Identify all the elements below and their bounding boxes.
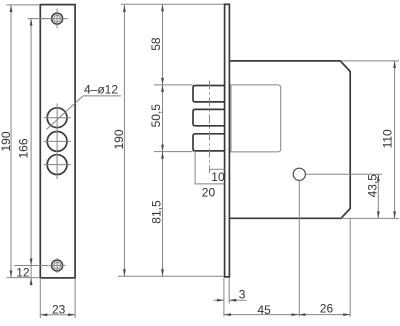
dimension 50,5 [149,85,164,152]
dimension 23 [40,278,75,318]
case right edge extension down [349,219,351,317]
dimension 166 [15,19,49,266]
hole circle 3 of 4-o12 [47,155,67,175]
lock case outline [229,61,350,218]
screw hole top centerlines [41,9,68,29]
svg-text:58: 58 [149,37,163,51]
latch bolt 3 [193,134,225,151]
faceplate front view outline [40,5,75,278]
case bottom extension [341,217,399,219]
dimension 110 [381,61,397,219]
dimension 20 [195,152,225,199]
dimension 43,5 [365,174,379,219]
dimension 3 [214,287,247,301]
faceplate edge view (middle bar) [225,4,230,277]
svg-text:110: 110 [381,129,395,148]
dimension 45 [224,303,299,317]
svg-text:43,5: 43,5 [365,174,379,198]
svg-text:190: 190 [112,129,126,149]
latch centerline [209,81,211,174]
label 4-o12 with leader [47,83,122,130]
svg-text:20: 20 [202,185,216,199]
dimension 12 [16,266,32,286]
svg-text:81,5: 81,5 [150,200,164,224]
hole circle 2 of 4-o12 [47,132,67,152]
svg-text:26: 26 [320,302,334,316]
dimension 190 (middle view) [112,4,224,276]
latch bolt 2 [193,109,225,125]
hole circle 1 of 4-o12 [47,108,67,128]
inner rectangle (cylinder cutout) [231,85,281,152]
dimension 58 [149,4,164,85]
dimension 190 (left view) [0,5,40,278]
screw hole top [52,13,63,24]
svg-text:166: 166 [17,138,31,158]
dimension 26 [299,302,351,317]
plate bottom extension left [223,278,225,317]
screw hole bottom [52,260,63,271]
extension from hole to right [306,173,382,175]
extension line latch3 bottom [154,151,193,153]
svg-text:45: 45 [257,303,271,317]
case hole circle [293,168,305,180]
dimension 81,5 [150,152,164,277]
extension line latch1 top [154,84,193,86]
hole circles centerlines [44,104,71,180]
case top extension [341,60,399,62]
plate bottom extension right [228,278,230,304]
svg-text:23: 23 [52,303,66,317]
svg-text:3: 3 [239,287,246,301]
latch bolt 1 [193,86,225,102]
svg-text:50,5: 50,5 [149,104,163,128]
dimension 10 [210,169,225,184]
screw hole bottom centerlines [49,258,66,273]
extension from hole down [298,181,300,317]
svg-text:190: 190 [0,131,13,151]
svg-text:12: 12 [16,266,30,280]
svg-text:10: 10 [211,170,225,184]
svg-text:4–ø12: 4–ø12 [84,83,118,97]
